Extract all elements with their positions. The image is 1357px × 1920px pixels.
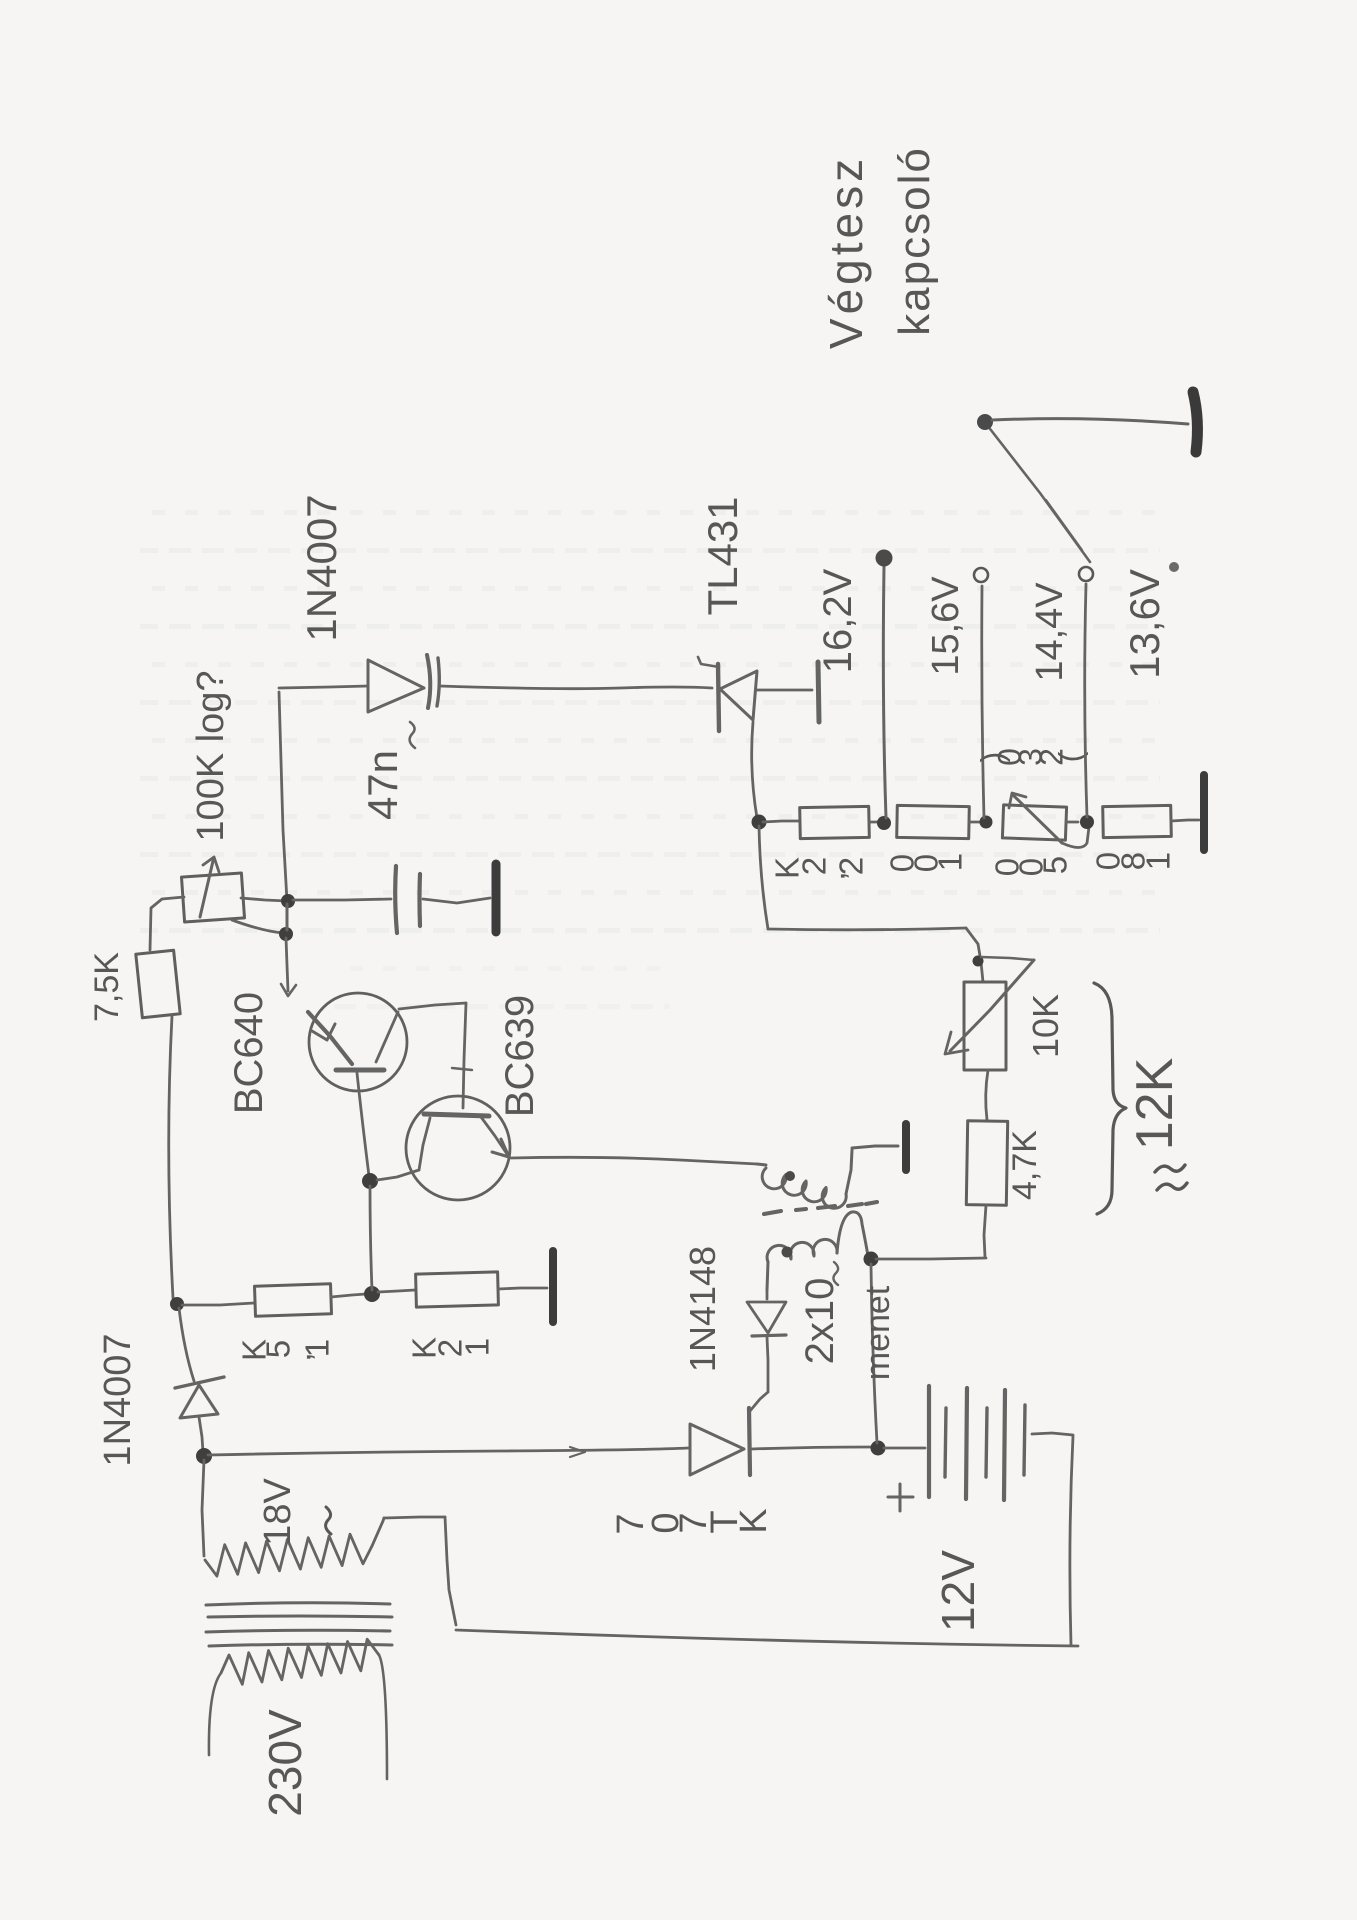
label R3 1,5K — [236, 1339, 336, 1362]
label D2 1N4007 — [298, 494, 345, 641]
wire node L to battery — [884, 1447, 925, 1450]
svg-text:13,6V: 13,6V — [1121, 569, 1168, 679]
label BT1 12V — [932, 1550, 984, 1632]
transformer T1 primary 230V — [221, 1639, 379, 1684]
node A — [281, 894, 295, 908]
svg-text:0: 0 — [884, 854, 921, 872]
TL431 U1 — [698, 657, 819, 731]
wire R3 to node I — [331, 1294, 366, 1297]
transformer T1 secondary 18V — [205, 1534, 372, 1576]
node H — [170, 1297, 184, 1311]
wire D2 cathode to TL431 U1 — [440, 686, 712, 689]
svg-text:2x10: 2x10 — [798, 1278, 842, 1365]
wire R8 to node G — [984, 1205, 986, 1257]
battery BT1 plates — [929, 1386, 1025, 1500]
ground of C1 — [492, 864, 501, 932]
node P2 top — [973, 956, 984, 967]
svg-text:TL431: TL431 — [699, 496, 746, 615]
switch S1 pivot — [977, 414, 993, 430]
wire P2 to R8 — [986, 1070, 988, 1120]
svg-text:): ) — [974, 752, 1010, 763]
label 2x10 — [798, 1262, 842, 1364]
wire rail node J to KT707 anode — [208, 1447, 688, 1457]
wire node C to R5 — [763, 821, 799, 822]
label P3 (230) — [974, 748, 1088, 766]
wire node K to node I — [370, 1186, 372, 1290]
label R5 2,2K — [769, 857, 870, 881]
wire node B to Q1 emitter — [281, 938, 296, 996]
svg-text:1N4148: 1N4148 — [682, 1246, 723, 1372]
label R7 180 — [1090, 852, 1177, 870]
label 15,6V — [925, 576, 967, 676]
label Q2 BC639 — [498, 995, 542, 1117]
tap dot 16,2V — [876, 550, 893, 567]
label R4 12K — [406, 1337, 496, 1359]
wire R7 to ground G1 — [1171, 820, 1199, 821]
phase dot T2 primary — [785, 1171, 795, 1181]
svg-text:Végtesz: Végtesz — [820, 155, 872, 349]
resistor R8 4,7K — [966, 1121, 1007, 1206]
svg-text:18V: 18V — [257, 1478, 299, 1546]
resistor R4 12K — [416, 1272, 499, 1307]
svg-text:12V: 12V — [932, 1550, 984, 1632]
wire node A to D2 anode — [279, 686, 368, 901]
wire T1 primary right lead — [379, 1655, 387, 1779]
wire R4 to ground G5 — [498, 1288, 547, 1289]
wire node C to P2 10K — [759, 826, 983, 982]
svg-text:4,7K: 4,7K — [1006, 1130, 1044, 1200]
wire node D to 16,2V tap — [883, 566, 886, 818]
svg-text:10K: 10K — [1025, 994, 1066, 1058]
wire bottom rail to T1 — [456, 1630, 1078, 1646]
label D3 1N4148 — [682, 1246, 723, 1372]
svg-text:K: K — [236, 1339, 273, 1361]
wire C1 to ground — [423, 898, 490, 903]
svg-text:15,6V: 15,6V — [925, 576, 967, 676]
node E — [980, 816, 993, 829]
wire node M to node L — [871, 1264, 877, 1443]
label D1 1N4007 — [97, 1333, 139, 1466]
label 16,2V — [816, 568, 860, 673]
potentiometer P3 500 (set 230) — [1002, 793, 1089, 848]
label 14,4V — [1029, 582, 1071, 682]
label 13,6V — [1121, 562, 1179, 679]
wire R5 to node D — [869, 821, 880, 824]
node K Q1 base / Q2 collector — [362, 1173, 378, 1189]
phase dot T2 secondary — [782, 1247, 793, 1258]
label R1 7,5K — [88, 952, 126, 1022]
transformer T2 secondary winding — [767, 1212, 868, 1290]
transistor Q1 BC640 — [308, 993, 407, 1091]
svg-text:12K: 12K — [1126, 1057, 1184, 1150]
svg-text:BC639: BC639 — [498, 995, 542, 1117]
wire node F to 14,4V tap — [1085, 584, 1087, 817]
wire D1 cathode to node J — [199, 1417, 203, 1452]
label approx — [1155, 1165, 1187, 1190]
wire node E to 15,6V tap — [982, 586, 984, 818]
wire Q2 emitter to T2 primary — [511, 1157, 757, 1164]
svg-text:7: 7 — [610, 1513, 652, 1534]
transformer T2 primary winding — [757, 1150, 852, 1208]
node L — [871, 1441, 886, 1456]
ground G1 — [1200, 775, 1208, 850]
node M — [864, 1252, 879, 1267]
svg-text:1N4007: 1N4007 — [97, 1333, 139, 1466]
wire T2 primary to ground G4 — [852, 1146, 898, 1148]
wire node A to C1 — [293, 899, 391, 900]
node J — [196, 1448, 212, 1464]
potentiometer P1 100K log — [182, 857, 245, 922]
wire D3 cathode to T2 secondary — [766, 1291, 769, 1299]
diode D3 1N4148 — [747, 1302, 786, 1336]
svg-text:230V: 230V — [259, 1709, 311, 1817]
label P3 500 — [989, 856, 1074, 876]
resistor R5 2,2K — [800, 806, 870, 838]
wire KT707 cathode to node L — [752, 1447, 872, 1449]
node I — [364, 1286, 380, 1302]
svg-text:0: 0 — [989, 858, 1026, 876]
svg-text:BC640: BC640 — [227, 992, 271, 1114]
svg-text:K: K — [406, 1337, 443, 1359]
wire R6 to node E — [969, 821, 984, 824]
label 230V — [259, 1709, 311, 1817]
label kapcsolo — [890, 146, 939, 336]
wire node H to R3 — [182, 1303, 254, 1305]
svg-text:16,2V: 16,2V — [816, 568, 860, 673]
svg-text:100K log?: 100K log? — [190, 670, 232, 841]
node C — [752, 815, 767, 830]
ground G2 — [1193, 392, 1197, 452]
potentiometer P2 10K — [945, 957, 1034, 1070]
svg-text:0: 0 — [1090, 852, 1127, 870]
svg-text:menet: menet — [859, 1285, 897, 1380]
battery plus sign — [888, 1484, 913, 1511]
tap circle 15,6V — [974, 568, 988, 582]
svg-text:14,4V: 14,4V — [1029, 582, 1071, 682]
ground G4 — [902, 1124, 910, 1170]
wire KT707 gate to D3 — [750, 1337, 768, 1411]
wiper P1 to node B — [232, 920, 283, 933]
wire S1 to ground G2 — [992, 419, 1188, 424]
wire node J down to T1 secondary — [202, 1460, 204, 1556]
brace approx 12K — [1094, 983, 1126, 1214]
label Vegtesz — [820, 155, 872, 349]
svg-text:K: K — [769, 857, 806, 879]
thyristor KT707 — [690, 1408, 750, 1475]
label U1 TL431 — [699, 496, 746, 615]
tap circle 14,4V — [1079, 567, 1093, 581]
wire battery to bottom rail — [1032, 1433, 1073, 1645]
label KT707 — [610, 1508, 775, 1534]
wire U1 anode to node C — [752, 722, 757, 818]
wire R1 bottom to node H — [169, 1016, 173, 1298]
label P1 100K log? — [190, 670, 232, 841]
wire T2 secondary to node M — [868, 1256, 869, 1258]
resistor R1 7,5K — [136, 950, 180, 1018]
wire 7,5K top to P1 left — [150, 897, 184, 950]
wire Q1 base to node I — [357, 1073, 369, 1176]
transformer T1 core — [206, 1603, 392, 1646]
transistor Q2 BC639 — [377, 1096, 510, 1200]
svg-text:kapcsoló: kapcsoló — [890, 146, 939, 336]
wire P1 right to node A — [241, 898, 287, 901]
svg-text:1N4007: 1N4007 — [298, 494, 345, 641]
diode D1 1N4007 (left) — [175, 1377, 224, 1418]
node B — [279, 904, 293, 941]
wire node I to R4 — [378, 1290, 415, 1292]
wire T1 primary left lead — [209, 1673, 221, 1755]
transformer T2 core — [764, 1202, 877, 1214]
ground G5 — [549, 1251, 557, 1322]
node F — [1080, 815, 1094, 829]
switch S1 blade — [987, 425, 1090, 562]
label menet — [859, 1285, 897, 1380]
capacitor C1 47n — [395, 866, 420, 933]
label 12K approx — [1126, 1057, 1184, 1150]
wire T1 secondary right up — [372, 1517, 456, 1625]
wire node H to D1 anode — [179, 1308, 194, 1381]
resistor R6 100 — [897, 805, 970, 838]
label P2 10K — [1025, 994, 1066, 1058]
node D — [877, 816, 891, 830]
svg-text:47n: 47n — [359, 750, 406, 820]
label Q1 BC640 — [227, 992, 271, 1114]
label R6 100 — [884, 853, 969, 872]
wire P3 to node F — [1066, 821, 1078, 824]
label R8 4,7K — [1006, 1130, 1044, 1200]
resistor R3 1,5K — [255, 1284, 332, 1317]
svg-text:7,5K: 7,5K — [88, 952, 126, 1022]
diode D2 1N4007 (top) — [368, 655, 439, 712]
label 18V — [257, 1478, 331, 1546]
wire node M to R8 bottom — [876, 1258, 986, 1259]
label C1 47n — [359, 722, 415, 820]
resistor R7 180 — [1103, 805, 1172, 837]
wire Q1 collector to Q2 base — [399, 1003, 472, 1108]
